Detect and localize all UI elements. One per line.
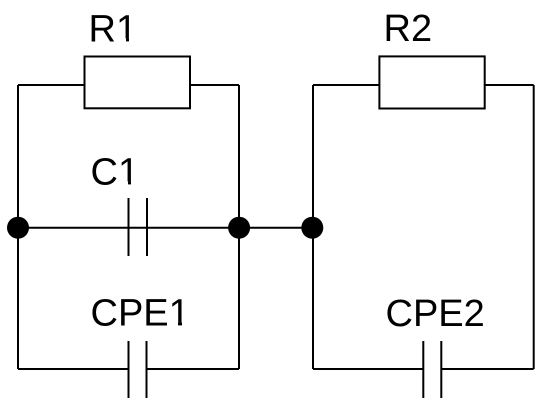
svg-text:R2: R2 [384, 8, 433, 50]
svg-text:CPE2: CPE2 [386, 293, 485, 335]
wire left-block top left segment [18, 84, 85, 86]
svg-text:C1: C1 [91, 152, 140, 194]
node junction dot middle-left [228, 217, 250, 239]
wire left-block left vertical [17, 85, 19, 369]
wire right-block right vertical [533, 85, 535, 369]
wire right-block bottom right segment [441, 368, 533, 370]
CPE CPE1 [129, 341, 147, 398]
label C1 [91, 152, 140, 194]
wire left-block right vertical [238, 85, 240, 369]
CPE CPE2 [423, 341, 441, 398]
label R1 [89, 9, 138, 51]
wire right-block bottom left segment [313, 368, 423, 370]
svg-text:CPE1: CPE1 [91, 293, 190, 335]
label CPE1 [91, 293, 190, 335]
node junction dot left [7, 217, 29, 239]
wire left-block bottom left segment [18, 368, 129, 370]
resistor R2 [379, 56, 484, 108]
wire left-block middle branch [18, 227, 239, 229]
wire right-block top left segment [313, 84, 379, 86]
svg-text:R1: R1 [89, 9, 138, 51]
wire middle connector between blocks [239, 227, 313, 229]
wire left-block top right segment [190, 84, 239, 86]
resistor R1 [85, 57, 191, 109]
node junction dot middle-right [301, 217, 323, 239]
wire left-block bottom right segment [147, 368, 240, 370]
wire right-block left vertical [312, 85, 314, 369]
capacitor C1 [129, 198, 148, 256]
wire right-block top right segment [485, 84, 534, 86]
